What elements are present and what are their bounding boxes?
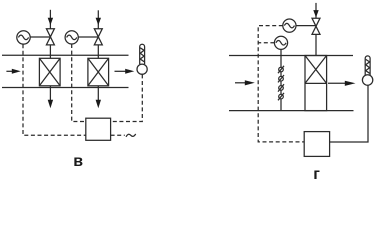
temperature sensor TE2 (thermometer) (362, 56, 372, 85)
air outlet arrow (в) (115, 69, 135, 74)
temperature sensor TE1 (thermometer) (137, 44, 147, 74)
heat exchanger W1 (39, 58, 60, 86)
spray pipe (280, 56, 282, 111)
valve V1 (46, 29, 54, 45)
wire: duct bottom line (г) (229, 110, 354, 112)
wire: duct top line (г) (229, 55, 353, 57)
wire TE2 to controller A2 (solid) (330, 85, 368, 142)
air inlet arrow (в) (6, 69, 20, 74)
wire V1 to heat exchanger (49, 45, 51, 58)
heat exchanger W2 (88, 58, 109, 86)
control branch dashed to pump M4 (258, 42, 274, 44)
wire V2 to heat exchanger (97, 45, 99, 58)
actuator M1 (circle with sine) (17, 31, 30, 44)
spray nozzle 1 (278, 66, 284, 73)
valve V1 inlet arrow (48, 10, 53, 29)
spray nozzle 3 (278, 84, 284, 91)
valve V2 inlet arrow (96, 10, 101, 28)
valve V3 inlet arrow (313, 3, 318, 18)
AC supply line (dashed) (111, 134, 125, 136)
air outlet arrow (г) (328, 81, 356, 86)
actuator M3 (circle with sine) (283, 19, 296, 32)
AC tilde symbol (126, 134, 136, 137)
controller A2 box (304, 132, 329, 157)
wire: duct bottom line (в) (2, 87, 129, 89)
actuator M2 (circle with sine) (65, 31, 78, 44)
wire M4 to spray pipe (280, 49, 282, 55)
svg-text:г: г (313, 166, 320, 183)
wire: duct top line (в) (2, 54, 129, 56)
control trunk dashed: controller to actuators (258, 26, 304, 142)
air inlet arrow (г) (235, 80, 255, 85)
wire M1 to valve V1 (30, 36, 50, 38)
wire M3 to valve V3 (296, 25, 316, 27)
valve V2 (94, 29, 102, 45)
control line M1 to controller (dashed) (23, 44, 86, 135)
pump M4 (circle with sine) (274, 36, 287, 49)
heat exchanger W3 with X section (305, 56, 327, 111)
wire V3 to heat exchanger (315, 34, 317, 55)
control line TE1 to controller (dashed) (111, 74, 143, 121)
svg-text:в: в (73, 153, 83, 170)
wire M2 to valve V2 (78, 36, 98, 38)
control line M2 to controller (dashed) (72, 44, 86, 122)
heat exchanger W1 outlet arrow (48, 86, 53, 109)
controller A1 box (86, 118, 111, 140)
spray nozzle 2 (278, 75, 284, 82)
spray nozzle 4 (278, 93, 284, 100)
heat exchanger W2 outlet arrow (96, 86, 101, 109)
valve V3 (312, 18, 320, 34)
